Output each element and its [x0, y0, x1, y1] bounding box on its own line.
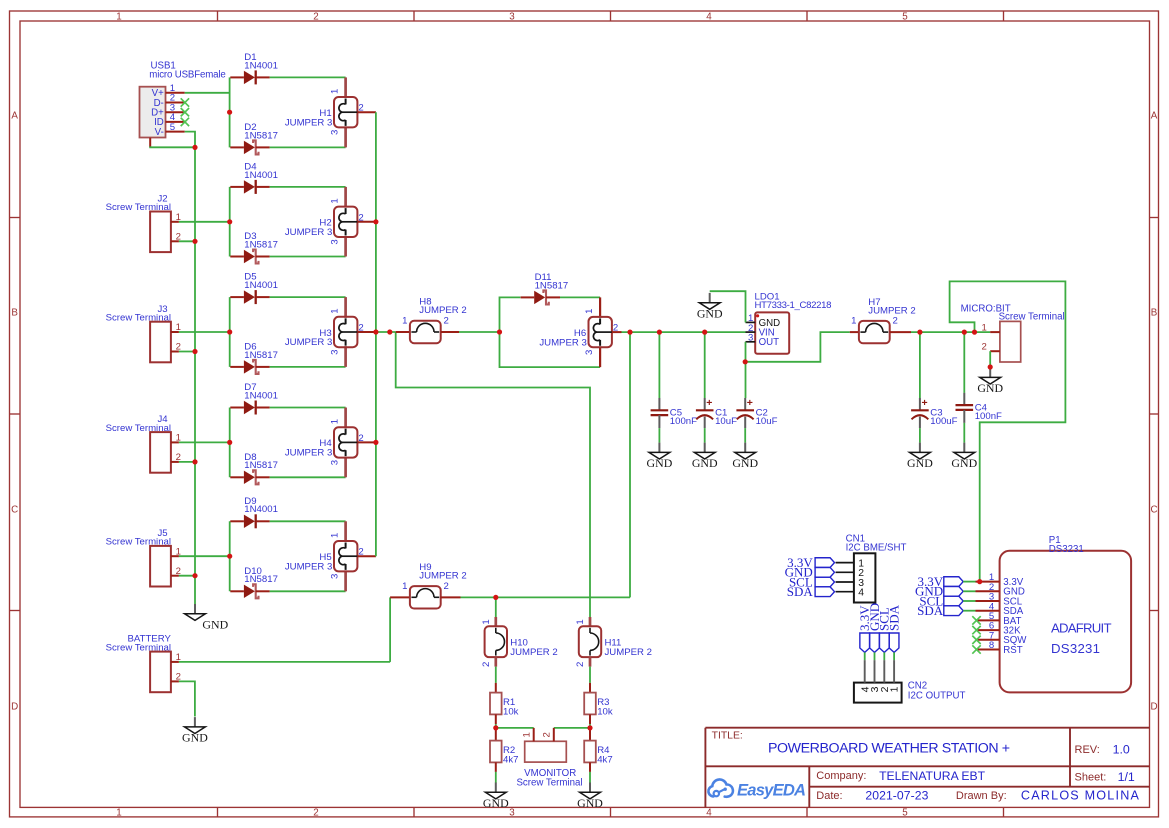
svg-text:1: 1	[116, 807, 121, 818]
wire H10 pin2 lead	[494, 657, 497, 667]
net label SCL	[879, 633, 889, 652]
wire	[179, 351, 195, 353]
svg-text:2: 2	[575, 662, 586, 667]
svg-text:CARLOS MOLINA: CARLOS MOLINA	[1021, 788, 1140, 802]
svg-text:ADAFRUIT: ADAFRUIT	[1051, 620, 1112, 635]
wire H6 pin3 lead	[599, 347, 601, 367]
ground	[182, 717, 208, 744]
wire	[589, 667, 591, 683]
wire	[963, 581, 975, 583]
diode D1 1N4001	[230, 52, 278, 85]
resistor R4 4k7	[584, 741, 612, 766]
svg-text:Drawn By:: Drawn By:	[956, 790, 1007, 802]
wire	[963, 600, 975, 602]
resistor R2 4k7	[490, 741, 518, 766]
node V+ junction	[227, 110, 232, 115]
wire H7 pin2 lead	[890, 331, 911, 333]
wire	[229, 521, 231, 591]
svg-text:D: D	[11, 702, 18, 713]
ground	[977, 368, 1003, 395]
node stage input junction	[227, 440, 232, 445]
wire	[179, 555, 230, 557]
svg-text:2: 2	[982, 341, 987, 352]
svg-text:1N5817: 1N5817	[244, 574, 278, 585]
wire	[375, 112, 377, 556]
svg-text:10k: 10k	[597, 706, 613, 717]
wire	[179, 221, 230, 223]
wire	[270, 186, 346, 188]
wire	[919, 332, 921, 398]
module P1 DS3231 (ADAFRUIT)	[976, 535, 1132, 692]
wire	[963, 590, 975, 592]
svg-text:1: 1	[402, 316, 407, 327]
wire	[396, 332, 590, 617]
no-connect pin2	[181, 98, 189, 106]
svg-text:GND: GND	[732, 456, 758, 470]
svg-text:GND: GND	[483, 796, 509, 810]
jumper H2 (JUMPER 3)	[285, 187, 364, 257]
diode D4 1N4001	[230, 161, 278, 194]
svg-text:1N4001: 1N4001	[244, 504, 278, 515]
connector CN1 I2C BME/SHT	[836, 534, 907, 603]
svg-text:Screw Terminal: Screw Terminal	[106, 642, 171, 653]
wire H3 pin2 lead	[357, 331, 376, 333]
node C5 junction	[657, 330, 662, 335]
diode D2 1N5817	[230, 122, 278, 155]
svg-text:5: 5	[902, 11, 908, 22]
wire	[704, 332, 706, 398]
wire	[149, 146, 195, 148]
node stage input junction	[227, 554, 232, 559]
wire	[500, 297, 521, 332]
wire	[270, 76, 346, 78]
diode D10 1N5817	[230, 566, 278, 599]
svg-text:3: 3	[509, 11, 515, 22]
wire R2 bottom lead	[495, 762, 497, 772]
diode D8 1N5817	[230, 452, 278, 485]
wire R1 bottom lead	[495, 714, 497, 724]
node pin2 gnd junction	[192, 349, 197, 354]
svg-text:A: A	[1151, 111, 1158, 122]
wire	[229, 77, 231, 147]
diode D9 1N4001	[230, 496, 278, 529]
wire	[883, 652, 885, 660]
wire	[229, 297, 231, 367]
svg-text:4k7: 4k7	[503, 754, 518, 765]
wire	[459, 331, 500, 333]
jumper H5 (JUMPER 3)	[285, 521, 364, 591]
wire	[179, 575, 195, 577]
svg-text:HT7333-1_C82218: HT7333-1_C82218	[755, 300, 832, 311]
svg-text:1: 1	[481, 619, 492, 624]
svg-text:V-: V-	[155, 127, 164, 138]
svg-text:3: 3	[330, 350, 341, 355]
wire	[495, 597, 497, 617]
wire	[185, 132, 195, 148]
svg-text:2: 2	[481, 662, 492, 667]
ground	[732, 443, 758, 470]
svg-text:D: D	[1150, 702, 1157, 713]
node output rail junction	[373, 440, 378, 445]
svg-text:3: 3	[330, 239, 341, 244]
svg-text:4k7: 4k7	[597, 754, 612, 765]
resistor R1 10k	[490, 693, 519, 718]
wire	[376, 331, 396, 333]
wire	[989, 351, 991, 367]
svg-text:A: A	[11, 111, 18, 122]
node tap junction	[387, 329, 392, 334]
wire H8 pin1 lead	[396, 331, 410, 333]
svg-text:GND: GND	[692, 456, 718, 470]
node stage input junction	[227, 329, 232, 334]
node C1 junction	[702, 330, 707, 335]
node C3 junction	[917, 330, 922, 335]
wire	[270, 590, 346, 592]
wire	[963, 610, 975, 612]
wire	[270, 296, 346, 298]
node GND junction	[192, 145, 197, 150]
svg-text:JUMPER 3: JUMPER 3	[539, 337, 586, 348]
wire	[270, 256, 346, 258]
svg-text:Screw Terminal: Screw Terminal	[999, 311, 1065, 322]
node pin2 gnd junction	[192, 573, 197, 578]
wire H6 pin2 lead	[612, 331, 622, 333]
svg-text:+: +	[922, 397, 928, 409]
screw terminal J5	[106, 528, 181, 587]
svg-text:3: 3	[330, 574, 341, 579]
ground	[577, 783, 603, 810]
svg-text:2: 2	[313, 11, 318, 22]
wire	[179, 461, 195, 463]
svg-text:5: 5	[170, 122, 175, 133]
wire H8 pin2 lead	[441, 331, 459, 333]
svg-text:1: 1	[330, 89, 341, 94]
wire	[864, 652, 866, 660]
svg-text:100nF: 100nF	[670, 416, 697, 427]
svg-text:1: 1	[330, 419, 341, 424]
svg-text:2: 2	[444, 316, 449, 327]
svg-text:3: 3	[584, 350, 595, 355]
diode D3 1N5817	[230, 231, 278, 264]
wire	[963, 423, 965, 443]
svg-text:10k: 10k	[503, 706, 519, 717]
no-connect	[972, 636, 980, 644]
svg-text:4: 4	[706, 807, 712, 818]
wire	[629, 332, 631, 597]
jumper H9 (JUMPER 2)	[402, 562, 467, 609]
regulator LDO1 HT7333-1_C82218	[746, 292, 832, 354]
svg-text:GND: GND	[697, 306, 723, 320]
node pin2 gnd junction	[192, 459, 197, 464]
wire	[270, 520, 346, 522]
net label 3.3V	[944, 577, 963, 587]
diode D6 1N5817	[230, 341, 278, 374]
svg-text:JUMPER 3: JUMPER 3	[285, 117, 332, 128]
capacitor C3 100uF	[911, 397, 958, 428]
resistor R3 10k	[584, 693, 613, 718]
net label GND	[870, 633, 880, 652]
no-connect	[972, 616, 980, 624]
svg-text:JUMPER 3: JUMPER 3	[285, 337, 332, 348]
node C4 junction	[962, 330, 967, 335]
capacitor C4 100nF	[956, 393, 1003, 423]
node out junction	[743, 359, 748, 364]
svg-text:Screw Terminal: Screw Terminal	[106, 423, 171, 434]
net label GND	[815, 567, 834, 577]
svg-text:JUMPER 2: JUMPER 2	[605, 647, 652, 658]
wire	[500, 332, 601, 367]
svg-text:2021-07-23: 2021-07-23	[865, 789, 928, 803]
svg-text:1/1: 1/1	[1118, 770, 1135, 784]
wire	[229, 408, 231, 478]
no-connect pin4	[181, 118, 189, 126]
svg-text:JUMPER 2: JUMPER 2	[419, 305, 466, 316]
ground	[647, 443, 673, 470]
svg-text:1: 1	[890, 686, 901, 692]
wire	[495, 724, 497, 728]
svg-text:GND: GND	[202, 617, 228, 631]
svg-text:1: 1	[330, 533, 341, 538]
wire R3 bottom lead	[589, 714, 591, 724]
diode D5 1N4001	[230, 272, 278, 305]
svg-text:SDA: SDA	[886, 604, 901, 631]
svg-text:JUMPER 3: JUMPER 3	[285, 448, 332, 459]
svg-text:1N4001: 1N4001	[244, 170, 278, 181]
svg-text:10uF: 10uF	[715, 416, 737, 427]
svg-text:1N5817: 1N5817	[244, 130, 278, 141]
node 3.3V loop junction	[972, 330, 977, 335]
svg-text:1.0: 1.0	[1113, 742, 1130, 756]
wire H4 pin2 lead	[357, 441, 376, 443]
svg-text:B: B	[11, 308, 18, 319]
svg-text:Screw Terminal: Screw Terminal	[106, 537, 171, 548]
svg-text:DS3231: DS3231	[1051, 641, 1100, 656]
svg-text:C: C	[11, 505, 18, 516]
svg-text:100nF: 100nF	[975, 411, 1002, 422]
wire	[658, 428, 660, 443]
wire	[950, 281, 1066, 581]
svg-text:Date:: Date:	[816, 790, 842, 802]
wire H6 pin1 lead	[599, 297, 601, 317]
svg-text:3: 3	[509, 807, 515, 818]
node H10 junction	[493, 595, 498, 600]
svg-text:SDA: SDA	[787, 584, 814, 599]
screw terminal J2	[106, 194, 181, 253]
net label SDA	[944, 606, 963, 616]
svg-text:1: 1	[116, 11, 121, 22]
wire	[194, 147, 196, 604]
screw terminal J3	[106, 304, 181, 363]
ground	[483, 783, 509, 810]
svg-text:B: B	[1151, 308, 1158, 319]
ground	[692, 443, 718, 470]
wire H9 pin2 lead	[440, 596, 460, 598]
wire H2 pin2 lead	[357, 221, 376, 223]
node divider1	[493, 725, 498, 730]
wire	[495, 667, 497, 683]
svg-text:Company:: Company:	[816, 770, 866, 782]
svg-text:3: 3	[748, 333, 753, 344]
capacitor C2 10uF	[736, 397, 777, 428]
svg-text:Screw Terminal: Screw Terminal	[106, 312, 171, 323]
wire	[963, 332, 965, 393]
ground	[951, 443, 977, 470]
svg-text:1: 1	[330, 308, 341, 313]
wire H11 pin1 lead	[589, 617, 592, 626]
wire	[179, 331, 230, 333]
wire	[270, 146, 346, 148]
svg-text:Screw Terminal: Screw Terminal	[516, 777, 582, 788]
jumper H3 (JUMPER 3)	[285, 297, 364, 367]
jumper H10 (JUMPER 2, vertical)	[481, 619, 558, 667]
svg-text:1N4001: 1N4001	[244, 60, 278, 71]
jumper H6 (JUMPER 3)	[539, 309, 618, 355]
svg-text:GND: GND	[977, 381, 1003, 395]
svg-text:1: 1	[330, 198, 341, 203]
svg-text:4: 4	[858, 588, 864, 599]
svg-text:OUT: OUT	[759, 337, 780, 348]
node vin rail junction	[627, 330, 632, 335]
node pin2 gnd junction	[192, 239, 197, 244]
svg-text:TITLE:: TITLE:	[712, 731, 743, 742]
screw terminal MICRO:BIT	[961, 304, 1065, 363]
wire	[874, 652, 876, 660]
wire H5 pin2 lead	[357, 555, 376, 557]
svg-text:micro USBFemale: micro USBFemale	[149, 69, 226, 80]
ground	[185, 604, 229, 631]
wire	[658, 332, 660, 398]
svg-text:1N5817: 1N5817	[244, 239, 278, 250]
svg-text:EasyEDA: EasyEDA	[737, 780, 806, 799]
wire H10 pin1 lead	[494, 617, 497, 626]
screw terminal J4	[106, 414, 181, 473]
svg-text:REV:: REV:	[1075, 744, 1100, 756]
wire	[270, 407, 346, 409]
net label GND	[944, 586, 963, 596]
svg-text:1: 1	[851, 316, 856, 327]
wire	[710, 291, 746, 322]
wire	[560, 296, 600, 298]
svg-text:2: 2	[444, 581, 449, 592]
node stage input junction	[227, 219, 232, 224]
wire	[745, 342, 747, 398]
wire	[589, 772, 591, 783]
wire	[911, 331, 990, 333]
capacitor C5 100nF	[651, 398, 698, 428]
svg-text:RST: RST	[1003, 645, 1022, 656]
svg-text:8: 8	[989, 640, 994, 651]
wire	[589, 724, 591, 728]
svg-text:GND: GND	[907, 456, 933, 470]
net label 3.3V	[860, 633, 870, 652]
wire R2 top lead	[495, 728, 497, 741]
wire	[185, 92, 230, 94]
net label SCL	[815, 577, 834, 587]
svg-text:10uF: 10uF	[756, 416, 778, 427]
jumper H1 (JUMPER 3)	[285, 77, 364, 147]
node output rail junction	[373, 219, 378, 224]
svg-text:JUMPER 3: JUMPER 3	[285, 227, 332, 238]
wire	[919, 428, 921, 443]
svg-text:3: 3	[330, 130, 341, 135]
connector CN2 I2C OUTPUT	[854, 660, 966, 703]
wire R3 top lead	[589, 683, 591, 693]
node divider2	[587, 725, 592, 730]
wire	[270, 366, 346, 368]
svg-text:Screw Terminal: Screw Terminal	[106, 202, 171, 213]
ground	[907, 443, 933, 470]
svg-text:DS3231: DS3231	[1049, 544, 1084, 555]
wire	[744, 428, 746, 443]
wire	[745, 332, 850, 362]
screw terminal BATTERY	[106, 634, 181, 692]
node 3.3V junction	[977, 579, 982, 584]
wire	[893, 652, 895, 660]
svg-text:4: 4	[706, 11, 712, 22]
jumper H8 (JUMPER 2)	[402, 297, 467, 343]
wire	[704, 428, 706, 443]
diode D7 1N4001	[230, 382, 278, 415]
wire	[389, 597, 391, 662]
svg-text:JUMPER 2: JUMPER 2	[868, 305, 915, 316]
jumper H4 (JUMPER 3)	[285, 408, 364, 478]
wire	[179, 441, 230, 443]
wire	[554, 727, 590, 729]
wire	[179, 240, 195, 242]
net label SDA	[815, 587, 834, 597]
wire H1 pin2 lead	[357, 111, 376, 113]
net label SCL	[944, 596, 963, 606]
svg-text:1N5817: 1N5817	[244, 460, 278, 471]
wire	[270, 476, 346, 478]
wire H9 pin1 lead	[390, 596, 410, 598]
svg-text:C: C	[1150, 505, 1157, 516]
svg-text:1: 1	[982, 322, 987, 333]
svg-text:1N4001: 1N4001	[244, 390, 278, 401]
svg-text:JUMPER 3: JUMPER 3	[285, 561, 332, 572]
svg-text:2: 2	[313, 807, 318, 818]
capacitor C1 10uF	[696, 397, 737, 428]
svg-text:JUMPER 2: JUMPER 2	[419, 571, 466, 582]
node MB gnd junction	[988, 364, 993, 369]
wire R4 bottom lead	[589, 762, 591, 772]
jumper H7 (JUMPER 2)	[851, 297, 916, 344]
svg-text:I2C OUTPUT: I2C OUTPUT	[908, 690, 966, 701]
svg-text:I2C BME/SHT: I2C BME/SHT	[846, 543, 907, 554]
svg-text:TELENATURA EBT: TELENATURA EBT	[879, 769, 986, 783]
node output rail junction	[373, 329, 378, 334]
svg-text:Sheet:: Sheet:	[1075, 771, 1107, 783]
wire	[229, 187, 231, 257]
wire H11 pin2 lead	[589, 657, 592, 667]
wire R1 top lead	[495, 683, 497, 693]
svg-text:+: +	[706, 397, 712, 409]
svg-text:+: +	[747, 397, 753, 409]
wire H7 pin1 lead	[850, 331, 859, 333]
title block	[705, 727, 1149, 729]
net label 3.3V	[815, 558, 834, 568]
svg-text:JUMPER 2: JUMPER 2	[510, 647, 557, 658]
wire R4 top lead	[589, 728, 591, 741]
wire	[622, 331, 746, 333]
jumper H11 (JUMPER 2, vertical)	[575, 619, 652, 667]
svg-text:2: 2	[542, 732, 553, 737]
svg-text:3: 3	[330, 460, 341, 465]
svg-text:2: 2	[893, 316, 898, 327]
wire	[179, 661, 390, 663]
svg-text:POWERBOARD WEATHER STATION +: POWERBOARD WEATHER STATION +	[768, 741, 1010, 757]
svg-text:100uF: 100uF	[930, 416, 957, 427]
